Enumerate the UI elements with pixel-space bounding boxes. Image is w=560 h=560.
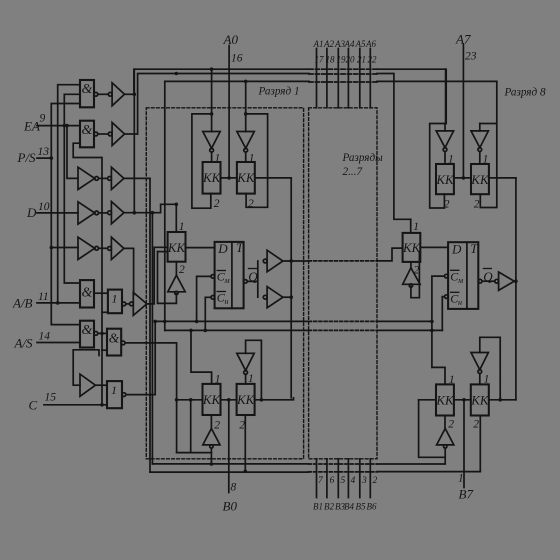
inverter TU2 (up triangle below KKr) <box>403 268 420 285</box>
dashed box Razryad 1 <box>146 108 303 459</box>
svg-text:D: D <box>451 242 462 257</box>
wire G3 out <box>94 292 108 294</box>
wire B2 out clock riser <box>126 321 155 394</box>
flipflop KK3b <box>237 384 255 415</box>
svg-text:B6: B6 <box>367 502 377 512</box>
svg-text:1: 1 <box>215 374 221 386</box>
buffer T4a row D <box>78 202 95 224</box>
svg-text:15: 15 <box>45 392 57 404</box>
wire top bus line2 y74 <box>138 74 411 220</box>
buffer T5b <box>108 247 112 251</box>
svg-text:2: 2 <box>214 198 220 210</box>
flipflop KK1b <box>237 162 255 194</box>
and gate G5 (A/S second gate) <box>107 329 121 356</box>
wire clock Cm line y321 <box>155 320 432 322</box>
buffer T9 (lower Q buffer) <box>263 295 267 299</box>
wire V4 long vertical right x515.9 <box>515 178 517 400</box>
svg-text:Разряд 8: Разряд 8 <box>504 87 546 99</box>
wire TK4 stem + feed from line3 <box>479 124 481 165</box>
pin D input wire <box>37 212 78 214</box>
svg-text:2: 2 <box>444 199 450 211</box>
wire KKm loop left <box>158 252 177 304</box>
svg-text:&: & <box>82 123 93 138</box>
buffer T8 (upper Q buffer) <box>263 259 267 263</box>
wire bottom bus2 y471.3 <box>150 471 480 474</box>
wire DT2 Cm input riser <box>445 274 449 278</box>
wire C tap into 1-box A/B in2 <box>102 311 108 313</box>
wire T9 out <box>283 296 291 298</box>
wire KKm to TU1 <box>175 262 177 276</box>
svg-text:22: 22 <box>368 55 378 65</box>
pin A/S input wire <box>37 342 80 344</box>
wire TK5 loop <box>246 340 262 400</box>
svg-text:1: 1 <box>483 154 489 166</box>
svg-text:1: 1 <box>249 153 255 165</box>
pins A1-A6 lines <box>317 49 371 108</box>
wire Cn input <box>211 296 215 300</box>
svg-text:1: 1 <box>449 374 455 386</box>
svg-text:B1: B1 <box>313 502 323 512</box>
svg-text:KK: KK <box>435 172 455 187</box>
svg-text:KK: KK <box>236 170 256 185</box>
wire TK2 stem + feed from line3 <box>245 81 247 162</box>
svg-text:3: 3 <box>361 476 367 486</box>
svg-text:1: 1 <box>112 292 118 306</box>
svg-text:P/S: P/S <box>17 150 37 165</box>
wire G5 out down to bottom KK row <box>125 343 177 453</box>
wire KKm left input2 <box>158 251 168 253</box>
wire Q out <box>244 280 248 284</box>
wire KK4a-KK4b link (B7 junction) <box>454 399 471 401</box>
pin P/S input wire <box>37 157 51 159</box>
svg-text:13: 13 <box>38 146 50 158</box>
inverter TU4 (up triangle below KK4a) <box>437 429 454 445</box>
svg-text:Разряды: Разряды <box>342 152 384 164</box>
svg-text:KK: KK <box>202 392 222 407</box>
wire T5b out down <box>124 248 134 295</box>
svg-text:B0: B0 <box>223 499 238 514</box>
svg-text:A5: A5 <box>355 39 366 49</box>
svg-text:EA: EA <box>23 119 40 134</box>
wire C net riser x102 <box>73 143 102 405</box>
pin B0 line <box>228 400 230 493</box>
wire T1 out <box>125 93 134 95</box>
svg-text:н: н <box>225 297 229 306</box>
bus A/B vertical x57.7 <box>58 85 80 303</box>
buffer T3a row3 <box>78 167 95 189</box>
bus P/S vertical x51 <box>51 104 80 325</box>
wire KK4b bottom stem to bus2 <box>479 416 481 472</box>
svg-text:10: 10 <box>38 201 50 213</box>
svg-text:T: T <box>236 240 244 255</box>
buffer T5a row5 <box>78 237 95 259</box>
wire KK2b loop from line3 <box>480 81 497 207</box>
inverter TK4 (above KK2b) <box>471 131 488 148</box>
flipflop DT2 (right D/T box) <box>448 242 478 309</box>
svg-text:C: C <box>29 398 38 413</box>
wire DT2 Q out <box>478 279 482 283</box>
svg-text:A/S: A/S <box>14 336 34 351</box>
wire KK4b right input from V4 <box>489 399 516 401</box>
buffer T4b <box>108 211 112 215</box>
svg-text:2: 2 <box>248 198 254 210</box>
wire KKr top stem <box>410 219 412 233</box>
svg-text:18: 18 <box>326 55 336 65</box>
wire V3 long vertical x291 <box>290 178 292 398</box>
wire clock jog x164.8 <box>164 321 166 330</box>
svg-text:KK: KK <box>470 172 490 187</box>
wire KK3b right input from V3 <box>255 398 294 400</box>
svg-text:A2: A2 <box>323 39 334 49</box>
inverter TK1 (above KK1a) <box>203 132 220 149</box>
wire T3b out to V1 <box>124 177 150 179</box>
wire Cm input <box>211 275 215 279</box>
junction dot KK1a loop <box>210 112 248 116</box>
wire KKm top stem <box>175 204 177 232</box>
inverter TU3 (up triangle below KK3a) <box>203 429 220 445</box>
wire KK3b bottom stem to bus2 <box>244 415 246 471</box>
pin C input wire <box>44 404 107 406</box>
svg-text:20: 20 <box>346 55 356 65</box>
svg-text:A6: A6 <box>365 39 376 49</box>
flipflop KK2b <box>471 164 489 194</box>
wire T3a-T3b <box>99 177 108 179</box>
svg-text:1: 1 <box>484 374 490 386</box>
and gate G4 (A/S gate) <box>80 321 94 348</box>
svg-text:Q: Q <box>483 269 493 284</box>
inverter TK2 (above KK1b) <box>237 132 254 149</box>
junction dots middle <box>133 93 294 333</box>
or gate B2 (1-box C row) <box>107 381 122 408</box>
and gate G2 (EA gate) <box>80 121 94 148</box>
wire KK1b loop <box>246 114 268 207</box>
wire T5a-T5b <box>99 247 108 249</box>
wire bottom-right pair loop riser x418.6 <box>419 400 446 458</box>
wire KK2a-KK2b link (A7 junction) <box>454 177 471 179</box>
wire T8 out <box>283 260 309 262</box>
wire C tap into AS gate2 <box>102 349 107 351</box>
svg-text:2: 2 <box>448 419 454 431</box>
svg-text:KK: KK <box>236 392 256 407</box>
wire KKr loop right <box>411 252 420 298</box>
dashed box Razryady 2..7 <box>309 108 377 459</box>
wire B1 out <box>126 303 130 305</box>
svg-text:KK: KK <box>167 240 187 255</box>
wire TK1 stem + feed from line1 <box>211 69 213 162</box>
svg-text:9: 9 <box>40 113 46 125</box>
wire V2 T4b riser to bottom bus1 <box>151 213 153 464</box>
svg-text:&: & <box>82 82 93 97</box>
pin A7 line <box>462 44 464 178</box>
wire KK2a loop <box>430 124 445 209</box>
svg-text:23: 23 <box>465 51 477 63</box>
svg-text:2: 2 <box>214 420 220 432</box>
wire TK3 stem + feed from line1 <box>444 69 447 164</box>
svg-text:B7: B7 <box>459 487 474 502</box>
wire T6 out up to mid KK <box>147 247 168 304</box>
overbars <box>217 269 493 293</box>
wire row5 feed from P/S bus <box>51 247 78 249</box>
svg-text:м: м <box>224 276 230 285</box>
svg-text:1: 1 <box>413 221 419 233</box>
svg-text:2: 2 <box>473 419 479 431</box>
svg-text:17: 17 <box>315 55 325 65</box>
wire G4 out <box>98 332 107 334</box>
svg-text:н: н <box>458 298 462 307</box>
wire T2 out <box>125 133 138 135</box>
inverter TU1 (up triangle below KKm) <box>168 275 185 292</box>
wire TU4 stem to bus1 <box>444 448 446 464</box>
svg-text:1: 1 <box>215 153 221 165</box>
junction dots top <box>175 67 466 179</box>
pins B1-B6 lines <box>317 459 371 498</box>
svg-text:D: D <box>217 241 228 256</box>
wire KK3a top stem from Cn line <box>191 330 212 384</box>
svg-text:16: 16 <box>231 53 243 65</box>
buffer T7 C row <box>80 374 95 396</box>
wire T7 out <box>95 384 107 386</box>
wire Q dotted through box 2..7 <box>309 260 377 262</box>
flipflop KK4b <box>471 384 489 415</box>
inverter TK5 (above KK3b) <box>237 353 254 370</box>
flipflop KK3a (bottom left) <box>203 384 221 415</box>
buffer T2 <box>108 132 112 136</box>
and gate G3 (A/B gate) <box>80 280 94 307</box>
svg-text:1: 1 <box>458 473 464 485</box>
wire KK4a top stem from Cn line <box>432 367 445 384</box>
wire KK1a-KK1b link (A0 junction) <box>221 177 237 179</box>
junction dots bottom <box>175 329 502 474</box>
wire DT2 Cn input riser <box>445 295 449 299</box>
wire T4a-T4b <box>99 212 108 214</box>
svg-text:&: & <box>82 286 93 301</box>
svg-text:&: & <box>109 331 120 346</box>
svg-text:2: 2 <box>239 420 245 432</box>
flipflop KK4a (bottom right) <box>436 384 454 415</box>
svg-text:1: 1 <box>248 373 254 385</box>
bus EA vertical x64.3 <box>64 94 80 283</box>
and gate G1 (3-input, top left) <box>80 80 94 107</box>
wire KKr out to DT2 <box>420 246 448 248</box>
svg-text:A1: A1 <box>313 39 324 49</box>
buffer T6 A/B row <box>130 302 134 306</box>
svg-text:2: 2 <box>474 199 480 211</box>
svg-text:14: 14 <box>39 331 51 343</box>
flipflop KK1a <box>203 162 221 194</box>
wire loop C buffer input <box>73 350 99 385</box>
wire top bus line1 y69.2 <box>134 69 446 123</box>
wire bottom bus1 y464 <box>152 463 445 465</box>
svg-text:2: 2 <box>414 265 420 277</box>
svg-text:1: 1 <box>111 383 117 397</box>
wire KK1b out to V3 <box>255 177 291 179</box>
svg-text:2: 2 <box>373 476 378 486</box>
pin EA input wire <box>37 125 80 127</box>
flipflop KKr (middle right) <box>403 233 421 262</box>
svg-text:D: D <box>26 205 37 220</box>
wire TU3 stem to bus1 <box>210 448 212 464</box>
wire T10 out to V4 <box>514 280 516 282</box>
wire KK3a bottom to TU3 <box>210 415 212 427</box>
svg-text:Q: Q <box>248 269 258 284</box>
wire y399.8 right pair <box>419 399 436 401</box>
wire G1 out <box>98 93 109 95</box>
junction dots right <box>430 279 518 332</box>
junction dots left buses <box>50 124 104 407</box>
buffer T3b <box>108 177 112 181</box>
wire KK4a bottom to TU4 <box>444 416 446 429</box>
svg-text:KK: KK <box>202 170 222 185</box>
svg-text:5: 5 <box>341 476 346 486</box>
pin B7 line <box>463 400 465 488</box>
wire KK2b out to V4 <box>489 177 516 179</box>
svg-text:KK: KK <box>470 393 490 408</box>
svg-text:7: 7 <box>318 476 324 486</box>
wire KK1a loop <box>192 114 212 208</box>
or gate B1 (1-box A/B row) <box>108 290 122 314</box>
wire V1 T3b riser to bottom bus2 <box>149 178 151 472</box>
svg-text:B5: B5 <box>356 502 366 512</box>
pin A/B input wire <box>37 302 80 304</box>
flipflop KKm (middle left) <box>168 232 186 262</box>
svg-text:2: 2 <box>179 264 185 276</box>
wire T4b out to mid KK top jog <box>124 204 176 212</box>
wire KKm out to DT <box>186 247 215 249</box>
buffer T1 <box>108 92 112 96</box>
inverter TK6 (above KK4b) <box>471 353 488 370</box>
svg-text:6: 6 <box>330 476 335 486</box>
svg-text:м: м <box>457 276 463 285</box>
buffer T10 (right Q buffer) <box>495 279 499 283</box>
bus row3 feed x67 <box>67 126 78 179</box>
wire bottom-left pair input line y399.8 <box>177 399 203 401</box>
wire G2 out <box>98 133 109 135</box>
svg-text:B4: B4 <box>344 502 354 512</box>
svg-text:2...7: 2...7 <box>343 166 363 178</box>
svg-text:KK: KK <box>402 240 422 255</box>
svg-text:A7: A7 <box>455 32 471 47</box>
svg-text:A0: A0 <box>223 32 239 47</box>
svg-text:A/B: A/B <box>12 296 33 311</box>
svg-text:&: & <box>82 323 93 338</box>
wire loop riser x190.7 <box>177 400 212 453</box>
pin A0 line <box>228 46 230 178</box>
svg-text:Разряд 1: Разряд 1 <box>258 86 300 98</box>
svg-text:T: T <box>470 241 478 256</box>
wire KKr to TU2 <box>410 262 412 268</box>
svg-text:4: 4 <box>351 476 356 486</box>
svg-text:8: 8 <box>231 482 237 494</box>
wire top bus line3 y82 (clock to bit8) <box>165 81 497 321</box>
wire clock Cn line y330.4 <box>165 329 443 331</box>
wire TK6 loop <box>480 337 500 400</box>
svg-text:B2: B2 <box>324 502 334 512</box>
svg-text:KK: KK <box>435 393 455 408</box>
svg-text:21: 21 <box>357 55 366 65</box>
inverter TK3 (above KK2a right pair) <box>436 131 453 148</box>
wire KK3a-KK3b link (B0 junction) <box>221 399 237 401</box>
svg-text:1: 1 <box>179 221 185 233</box>
svg-text:11: 11 <box>38 291 49 303</box>
svg-text:1: 1 <box>448 154 454 166</box>
svg-text:A4: A4 <box>344 39 355 49</box>
flipflop DT1 (D/T box) <box>215 242 244 308</box>
flipflop KK2a <box>436 164 454 194</box>
wire T1 riser down x134.3 <box>133 69 135 213</box>
